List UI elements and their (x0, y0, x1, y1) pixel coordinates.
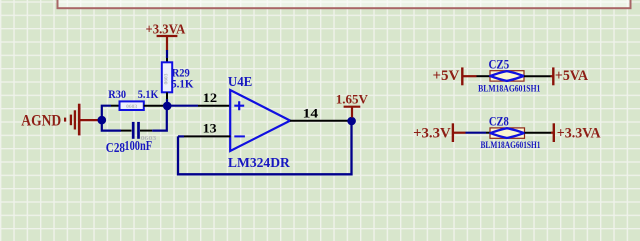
svg-text:0603: 0603 (164, 73, 170, 84)
svg-text:+5V: +5V (433, 68, 460, 84)
svg-text:+3.3V: +3.3V (413, 125, 451, 141)
svg-text:+5VA: +5VA (555, 68, 589, 84)
svg-text:+3.3VA: +3.3VA (557, 125, 601, 141)
svg-text:5.1K: 5.1K (138, 87, 159, 101)
svg-text:100nF: 100nF (124, 138, 152, 153)
svg-text:BLM18AG601SH1: BLM18AG601SH1 (481, 141, 541, 151)
svg-text:C28: C28 (106, 140, 125, 155)
svg-text:1.65V: 1.65V (336, 92, 369, 107)
svg-text:0603: 0603 (126, 104, 137, 110)
svg-text:5.1K: 5.1K (171, 77, 194, 91)
svg-text:U4E: U4E (228, 74, 253, 89)
svg-text:CZ8: CZ8 (489, 114, 509, 128)
svg-text:LM324DR: LM324DR (228, 155, 290, 170)
svg-text:+3.3VA: +3.3VA (146, 21, 186, 36)
svg-text:14: 14 (303, 107, 319, 121)
svg-text:12: 12 (203, 91, 218, 105)
svg-text:13: 13 (203, 122, 217, 136)
svg-text:AGND: AGND (21, 112, 61, 129)
svg-text:BLM18AG601SH1: BLM18AG601SH1 (478, 84, 541, 94)
svg-text:CZ5: CZ5 (489, 57, 510, 71)
svg-text:R30: R30 (108, 87, 126, 101)
